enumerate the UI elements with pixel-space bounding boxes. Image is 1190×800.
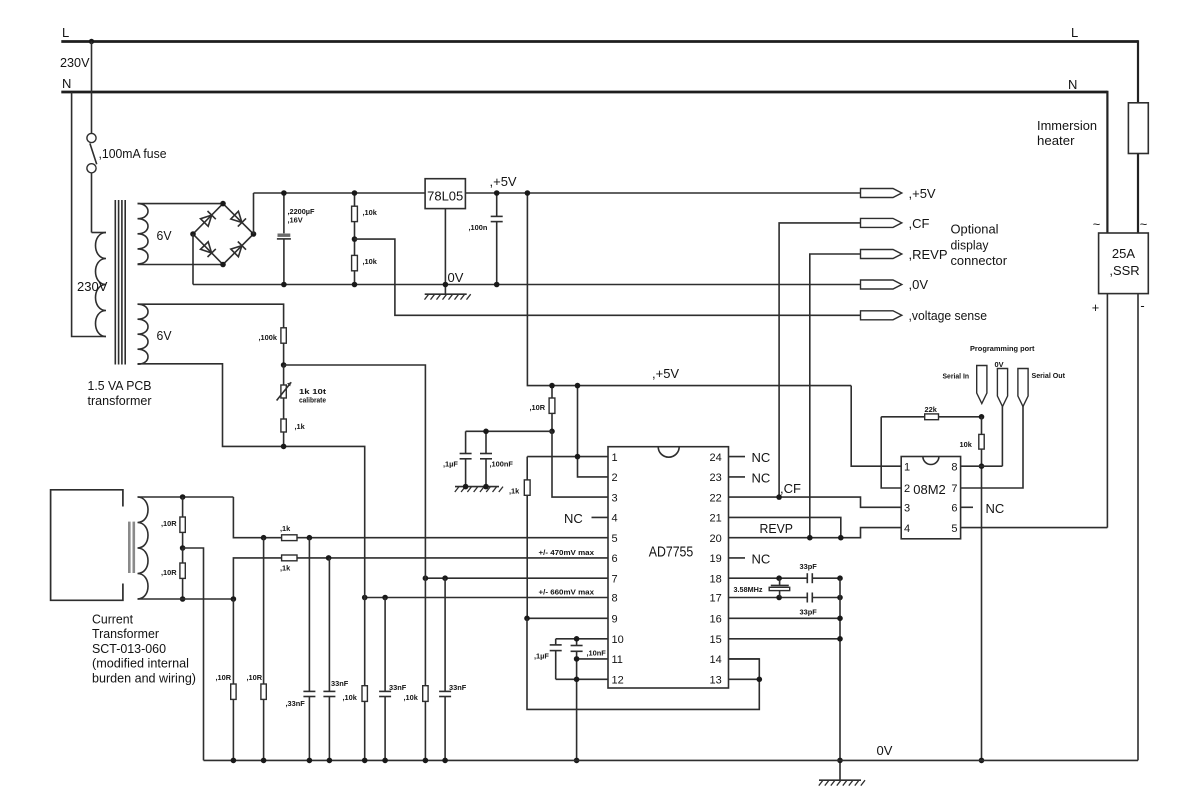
junction divider node (281, 362, 287, 368)
svg-text:230V: 230V (77, 279, 108, 294)
svg-text:,10k: ,10k (343, 693, 358, 702)
junction +5V rail at 577 (575, 383, 581, 389)
wire pin8 V2P (365, 597, 608, 599)
svg-text:6: 6 (612, 553, 618, 565)
capacitor C4 1uF decoupling (460, 431, 472, 486)
junction divider bottom (281, 444, 287, 450)
svg-text:3: 3 (904, 503, 910, 515)
svg-text:19: 19 (710, 553, 722, 565)
wire pin18 XTAL1 (729, 577, 808, 579)
wire pin11 S1 (577, 658, 608, 660)
label C1 value (288, 207, 315, 225)
svg-text:burden and wiring): burden and wiring) (92, 670, 196, 685)
wire pin10 REF (556, 638, 608, 640)
svg-text:SCT-013-060: SCT-013-060 (92, 641, 166, 656)
svg-text:,+5V: ,+5V (909, 186, 936, 201)
junction CT centre tap (180, 545, 186, 551)
wire V1P to pin5 (233, 497, 608, 538)
label NC pin4 (564, 511, 583, 526)
label R2 value (363, 257, 378, 266)
label prog 0V (995, 360, 1004, 369)
wire pin7 V2N (425, 577, 608, 579)
svg-text:4: 4 (612, 513, 618, 525)
label +5V node AD7755 (652, 366, 679, 381)
connector CF flag (861, 218, 902, 227)
resistor R9 10k serin (979, 417, 984, 761)
svg-text:230V: 230V (60, 55, 90, 70)
label R16 value (259, 333, 278, 342)
label +5V at 78L05 output (490, 174, 517, 189)
crystal X1 3.58MHz (769, 578, 790, 597)
capacitor C9 33nF pin7 (439, 578, 451, 760)
label node CF (780, 481, 801, 496)
svg-text:+: + (1092, 300, 1099, 315)
wire +5V to pin1 pin2 (578, 386, 609, 477)
svg-text:~: ~ (1140, 217, 1147, 232)
capacitor C3 100n (491, 193, 503, 285)
wire pin9 loop to pin13 pin14 (527, 618, 759, 709)
svg-text:,CF: ,CF (909, 216, 930, 231)
svg-text:,100k: ,100k (259, 333, 278, 342)
svg-text:12: 12 (612, 675, 624, 687)
wire L rail (61, 40, 1138, 43)
wire divider node to pin7 (284, 365, 426, 578)
svg-text:display: display (951, 237, 990, 252)
label X1 value (734, 585, 763, 594)
junction REVP at pin20 (807, 535, 813, 541)
label C3 value (469, 223, 488, 232)
junction pin15 (837, 636, 843, 642)
junction bridge left (190, 231, 196, 237)
wire SSR minus to 0V (1137, 294, 1139, 761)
resistor R13 10R to 0V (261, 538, 266, 761)
svg-text:,10R: ,10R (161, 519, 177, 528)
svg-text:,+5V: ,+5V (652, 366, 679, 381)
svg-text:,+5V: ,+5V (490, 174, 517, 189)
svg-text:,1µF: ,1µF (534, 652, 549, 661)
label C7 value (331, 679, 349, 688)
svg-text:0V: 0V (448, 270, 464, 285)
resistor R2 10k lower divider (352, 239, 358, 284)
svg-text:,10R: ,10R (247, 673, 263, 682)
junction 08M2 pin8 gnd (979, 463, 985, 469)
wire 08M2 pin6 stub NC (961, 506, 973, 508)
label connector REVP (909, 247, 948, 262)
svg-text:NC: NC (752, 471, 771, 486)
label pin6 input range (539, 548, 595, 557)
wire secondary2 top to divider (138, 304, 284, 328)
wire CT bottom lead (138, 598, 234, 600)
junction CT bottom feed (231, 596, 237, 602)
svg-text:,REVP: ,REVP (909, 247, 948, 262)
svg-text:NC: NC (986, 501, 1005, 516)
wire secondary1 top to bridge (138, 203, 224, 205)
capacitor C8 33nF pin8 (379, 598, 391, 761)
junction bridge right (251, 231, 257, 237)
wire pin13 (729, 678, 760, 680)
svg-text:2: 2 (612, 472, 618, 484)
wire +5V feed down to AD7755 (527, 193, 851, 386)
junction L-fuse (89, 39, 94, 44)
junction rail R13 (261, 758, 267, 764)
svg-text:NC: NC (752, 450, 771, 465)
wire 08M2 pin5 to SSR (961, 527, 1108, 529)
resistor R1 10k upper divider (352, 193, 358, 239)
wire pin9 AGND (527, 617, 608, 619)
resistor R18 1k calibrate (281, 419, 286, 446)
svg-text:Programming port: Programming port (970, 344, 1035, 353)
junction R1 top (352, 190, 358, 196)
label transformer name (88, 378, 153, 408)
wire secondary2 bottom to pin8 (138, 364, 365, 598)
svg-text:,0V: ,0V (909, 277, 929, 292)
ground symbol main (819, 780, 865, 785)
wire centre tap to 0V (183, 548, 204, 760)
junction C12 right (837, 575, 843, 581)
junction R4 bottom (549, 429, 555, 435)
label Serial Out (1032, 371, 1066, 380)
wire voltage sense (355, 239, 861, 315)
svg-text:L: L (1071, 25, 1078, 40)
wire pin20 REVP to 08M2 pin4 (729, 528, 902, 538)
connector REVP flag (861, 250, 902, 259)
svg-text:,1µF: ,1µF (443, 460, 458, 469)
wire decoupling branch (466, 430, 552, 432)
junction C5 top (483, 429, 489, 435)
label NC pin24 (752, 450, 771, 465)
svg-text:,10R: ,10R (161, 568, 177, 577)
svg-text:calibrate: calibrate (299, 396, 326, 405)
junction pin10 at C11 (574, 636, 580, 642)
immersion heater element (1128, 40, 1148, 233)
svg-text:,10nF: ,10nF (587, 649, 607, 658)
junction C1 bottom (281, 282, 287, 288)
op-amp U1 AD7755 body (608, 447, 729, 688)
label R4 value (530, 403, 546, 412)
svg-text:0V: 0V (995, 360, 1004, 369)
svg-text:14: 14 (710, 654, 722, 666)
svg-text:10: 10 (612, 634, 624, 646)
svg-text:,10k: ,10k (404, 693, 419, 702)
label C6 value (286, 699, 306, 708)
wire R4 to pin3 AVDD (552, 431, 608, 497)
wire CF net vertical (779, 223, 860, 497)
resistor R16 100k (281, 328, 286, 365)
diode D4 (231, 242, 246, 257)
svg-text:N: N (1068, 77, 1077, 92)
label connector CF (909, 216, 930, 231)
svg-text:1: 1 (904, 461, 910, 473)
label R11 value (161, 568, 177, 577)
wire pin23 stub NC (729, 476, 746, 478)
junction pin8 at C8 (382, 595, 388, 601)
label R7 value (280, 564, 291, 573)
label secondary1 6V (157, 228, 172, 243)
wire pin17 XTAL2 (729, 597, 808, 599)
current transformer winding (138, 497, 149, 599)
junction rail R14 (362, 758, 368, 764)
label immersion heater (1037, 118, 1097, 148)
wire 0V bottom rail (204, 759, 1139, 761)
svg-text:,CF: ,CF (780, 481, 801, 496)
junction pin1 +5V (575, 454, 581, 460)
resistor R11 10R burden lower (180, 548, 185, 599)
junction C3 top (494, 190, 500, 196)
label Serial In (943, 372, 970, 381)
junction pin7 at 10k (423, 575, 429, 581)
junction rail R15 (423, 758, 429, 764)
label C11 value (587, 649, 607, 658)
wire C13 to gnd line (812, 597, 840, 599)
junction serial in 22k (979, 414, 985, 420)
wire CT top lead (138, 496, 234, 498)
junction +5V rail at 552 (549, 383, 555, 389)
wire pin15 G0 gnd (729, 638, 841, 640)
transformer T1 core (115, 200, 125, 365)
capacitor C5 100nF decoupling (480, 431, 492, 486)
svg-text:33nF: 33nF (331, 679, 349, 688)
wire V1N to pin6 (233, 558, 608, 599)
junction C4 gnd (463, 484, 469, 490)
label C8 value (389, 683, 407, 692)
svg-text:,100n: ,100n (469, 223, 488, 232)
svg-text:5: 5 (951, 523, 957, 535)
svg-text:Transformer: Transformer (92, 626, 160, 641)
connector Serial In flag (977, 366, 987, 404)
label R10 value (161, 519, 177, 528)
junction xtal top (776, 575, 782, 581)
junction rail C6 (307, 758, 313, 764)
resistor R12 10R to 0V (231, 599, 236, 760)
label R9 value (960, 440, 973, 449)
junction C3 bottom (494, 282, 500, 288)
svg-text:Optional: Optional (951, 222, 999, 237)
svg-text:15: 15 (710, 634, 722, 646)
wire 08M2 pin7 serial out (961, 407, 1023, 489)
svg-text:,1k: ,1k (509, 487, 520, 496)
junction CT top 10R (180, 494, 186, 500)
junction gnd line 0V rail (837, 758, 843, 764)
connector Serial Out flag (1018, 369, 1028, 407)
svg-text:+/- 470mV max: +/- 470mV max (539, 548, 595, 557)
svg-text:16: 16 (710, 614, 722, 626)
label C10 value (534, 652, 549, 661)
capacitor C1 2200uF (277, 193, 291, 285)
label fuse value (99, 146, 167, 161)
capacitor C11 10nF ref (571, 639, 583, 761)
label SSR dc terminals (1092, 298, 1145, 315)
svg-text:Current: Current (92, 612, 133, 627)
wire N to SSR input (1106, 91, 1108, 233)
label primary 230V (77, 279, 108, 294)
svg-text:33pF: 33pF (800, 562, 818, 571)
label R8 value (925, 405, 938, 414)
svg-text:,voltage sense: ,voltage sense (909, 308, 988, 323)
transformer T1 secondary 6V upper (138, 204, 149, 264)
svg-text:33nF: 33nF (389, 683, 407, 692)
svg-text:10k: 10k (960, 440, 973, 449)
resistor R7 1k pin6 (282, 555, 297, 561)
svg-text:transformer: transformer (88, 393, 153, 408)
wire 0V prog flag lead (1001, 407, 1003, 467)
label connector 0V (909, 277, 929, 292)
svg-text:connector: connector (951, 253, 1008, 268)
svg-text:25A: 25A (1112, 246, 1135, 261)
resistor R15 10k pin7 bias (423, 578, 428, 760)
svg-text:3.58MHz: 3.58MHz (734, 585, 763, 594)
svg-text:N: N (62, 76, 71, 91)
label R13 value (247, 673, 263, 682)
wire REVP net vertical (810, 254, 861, 538)
svg-text:L: L (62, 25, 69, 40)
svg-text:11: 11 (612, 654, 623, 666)
svg-text:3: 3 (612, 492, 618, 504)
junction loop pin13 (757, 677, 763, 683)
svg-text:7: 7 (612, 573, 618, 585)
junction pin12 at C11 (574, 677, 580, 683)
junction pin16 (837, 616, 843, 622)
connector +5V flag (861, 189, 902, 198)
relay U4 25A SSR (1099, 233, 1149, 294)
svg-text:1.5 VA PCB: 1.5 VA PCB (88, 378, 152, 393)
label C12 value (800, 562, 818, 571)
capacitor C10 1uF ref (550, 639, 562, 680)
resistor R4 10R supply filter (549, 386, 555, 432)
junction bridge top (220, 201, 226, 207)
capacitor C13 33pF (807, 593, 812, 603)
junction rail C9 (442, 758, 448, 764)
svg-text:4: 4 (904, 523, 910, 535)
resistor R10 10R burden upper (180, 497, 185, 548)
ground symbol at 78L05 (425, 294, 471, 299)
resistor R3 1k to pin9 (524, 457, 530, 619)
label secondary2 6V (157, 328, 172, 343)
connector prog 0V flag (997, 369, 1007, 407)
wire 78L05 ground lead (444, 209, 446, 295)
svg-text:9: 9 (612, 614, 618, 626)
label R3 value (509, 487, 520, 496)
label connector voltage sense (909, 308, 988, 323)
capacitor C7 33nF pin6 (323, 558, 335, 761)
label R17 value (299, 387, 327, 405)
svg-text:AD7755: AD7755 (649, 545, 694, 561)
wire +5V to 08M2 pin1 (851, 386, 901, 467)
svg-text:13: 13 (710, 675, 722, 687)
wire crystal gnd vertical (839, 578, 841, 780)
junction pin9 (524, 616, 530, 622)
svg-text:-: - (1140, 298, 1144, 313)
label C13 value (800, 608, 818, 617)
svg-text:8: 8 (612, 593, 618, 605)
ground symbol decoupling (455, 487, 503, 492)
wire pin22 CF out (729, 497, 902, 507)
wire AD7755 pin1 DVDD (527, 456, 608, 458)
label NC pin19 (752, 552, 771, 567)
current transformer body (51, 490, 123, 601)
label R1 value (363, 208, 378, 217)
node L (mains live) (60, 25, 1078, 70)
label optional display connector (951, 222, 1008, 269)
svg-text:~: ~ (1093, 217, 1100, 232)
svg-text:22: 22 (710, 492, 722, 504)
junction +5V rail tap (525, 190, 531, 196)
resistor R8 22k (881, 414, 981, 420)
svg-text:6V: 6V (157, 328, 172, 343)
wire pin12 S0 (556, 678, 608, 680)
svg-text:24: 24 (710, 452, 722, 464)
label NC 08M2 pin6 (986, 501, 1005, 516)
junction C13 right (837, 595, 843, 601)
svg-text:NC: NC (752, 552, 771, 567)
svg-text:NC: NC (564, 511, 583, 526)
wire pin19 stub NC (729, 557, 746, 559)
label node REVP (760, 521, 794, 536)
bridge rectifier frame (193, 204, 254, 265)
label 0V at 78L05 (448, 270, 464, 285)
junction divider tap (352, 236, 358, 242)
label R18 value (295, 422, 306, 431)
junction 78L05 gnd on 0V rail (443, 282, 449, 288)
junction C11 at 0V rail (574, 758, 580, 764)
junction bridge bottom (220, 262, 226, 268)
label connector +5V (909, 186, 936, 201)
svg-text:REVP: REVP (760, 521, 794, 536)
diode D3 (201, 242, 216, 257)
current transformer core (129, 522, 134, 573)
capacitor C12 33pF (807, 573, 812, 583)
label SSR ac terminals (1093, 217, 1147, 232)
wire unregulated rail (254, 192, 861, 194)
svg-text:7: 7 (951, 483, 957, 495)
svg-text:20: 20 (710, 533, 722, 545)
wire 08M2 pin8 0V (961, 465, 1003, 467)
svg-text:6V: 6V (157, 228, 172, 243)
svg-text:,1k: ,1k (280, 564, 291, 573)
svg-text:17: 17 (710, 593, 722, 605)
label R15 value (404, 693, 419, 702)
junction pin21 join (838, 535, 844, 541)
diode D2 (231, 211, 246, 226)
junction pin5 line at C6 (307, 535, 313, 541)
svg-text:,10k: ,10k (363, 257, 378, 266)
junction rail C7 (327, 758, 333, 764)
svg-text:21: 21 (710, 513, 722, 525)
label R12 value (216, 673, 232, 682)
wire SSR plus to 08M2 pin5 (1106, 294, 1108, 528)
svg-text:,1k: ,1k (295, 422, 306, 431)
svg-text:23: 23 (710, 472, 722, 484)
fuse F1 100mA (87, 42, 97, 233)
label 0V bottom rail (877, 743, 893, 758)
junction CT bottom 10R (180, 596, 186, 602)
svg-text:,SSR: ,SSR (1109, 263, 1139, 278)
label Programming port (970, 344, 1035, 353)
resistor R14 10k pin8 bias (362, 598, 367, 761)
junction CF (776, 494, 782, 500)
svg-text:18: 18 (710, 573, 722, 585)
wire secondary1 bottom to bridge (138, 264, 224, 266)
svg-text:1: 1 (612, 452, 618, 464)
junction C1 top (281, 190, 287, 196)
svg-text:+/- 660mV max: +/- 660mV max (539, 588, 595, 597)
svg-text:Immersion: Immersion (1037, 118, 1097, 133)
svg-text:08M2: 08M2 (913, 482, 946, 497)
label NC pin23 (752, 471, 771, 486)
junction rail R12 (231, 758, 237, 764)
svg-text:78L05: 78L05 (427, 189, 463, 204)
wire 0V rail (193, 284, 861, 286)
label R5 value (280, 524, 291, 533)
